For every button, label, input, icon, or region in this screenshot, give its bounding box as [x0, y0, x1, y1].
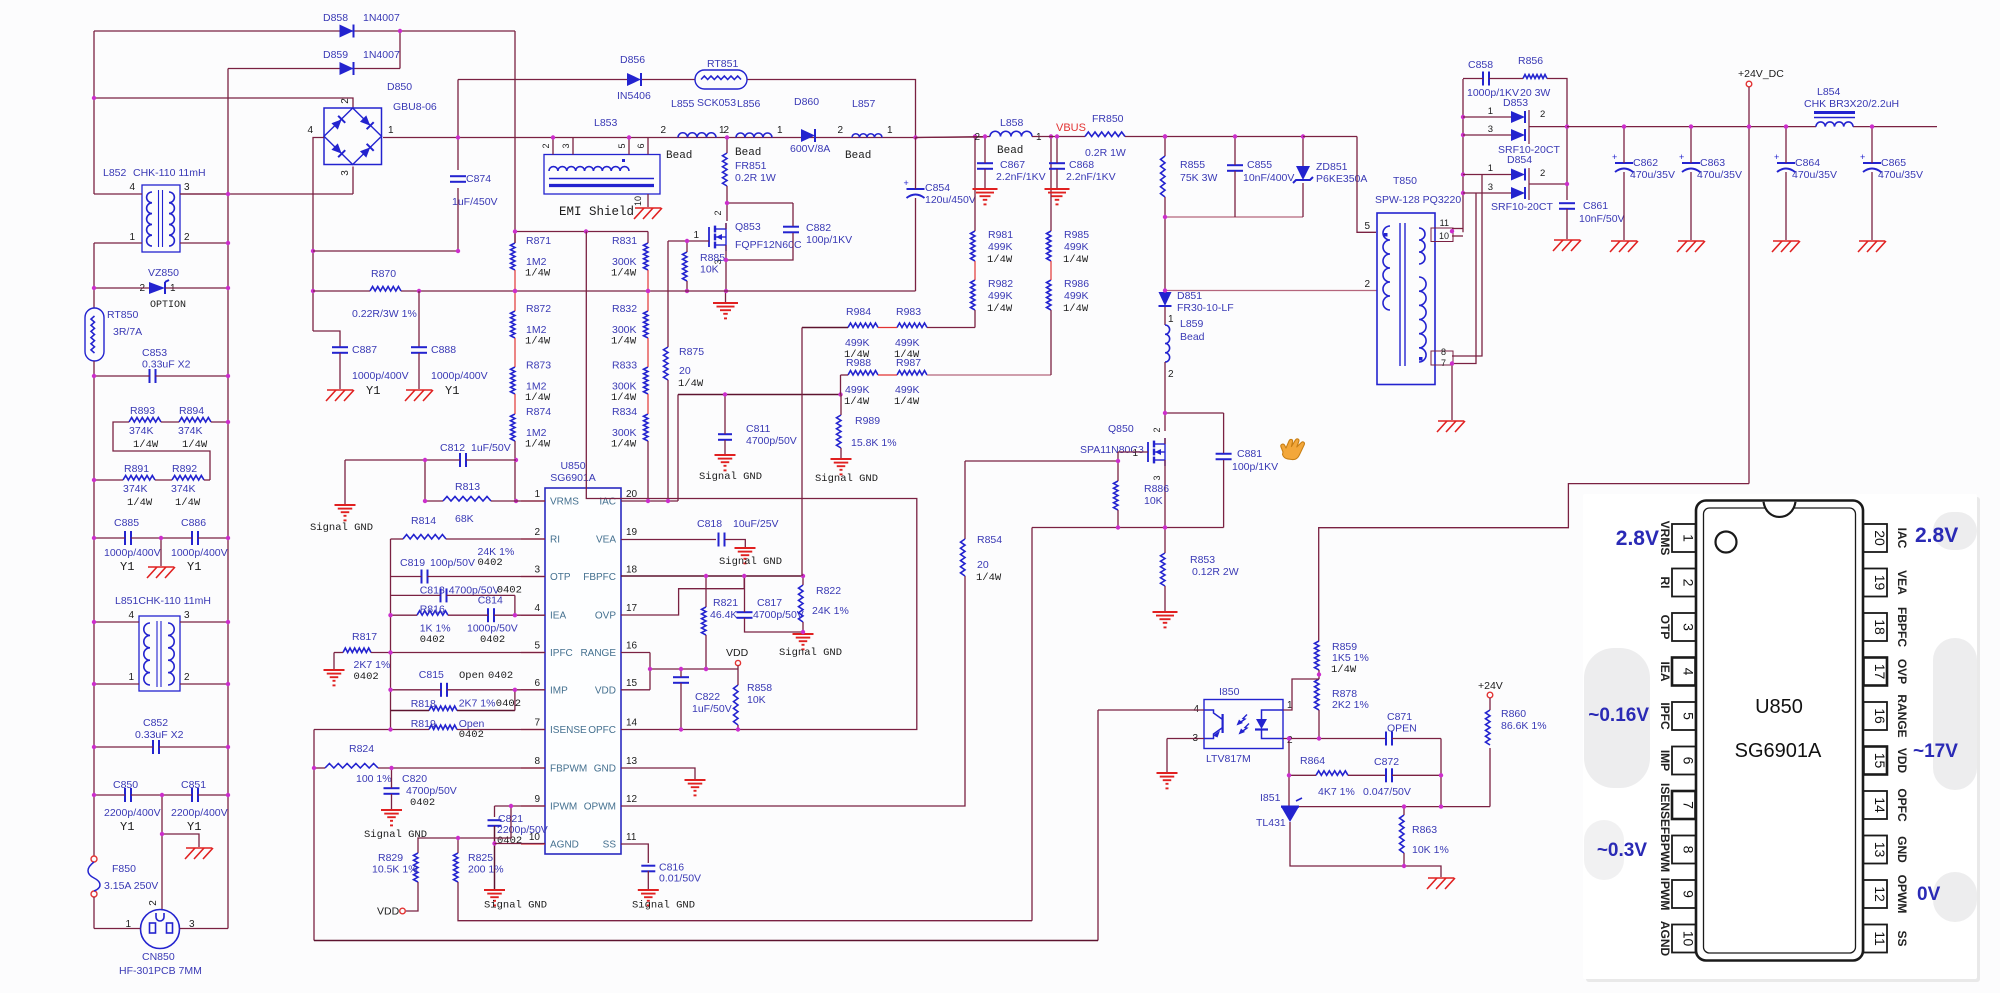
svg-text:1M2: 1M2: [526, 381, 547, 393]
junction dots: [388, 727, 392, 731]
wire: [313, 730, 315, 941]
diode D853: [1488, 97, 1561, 156]
wire: [974, 137, 976, 232]
resistor R834: [611, 406, 648, 451]
svg-text:R832: R832: [612, 303, 637, 315]
svg-text:C871: C871: [1387, 711, 1412, 723]
svg-text:Y1: Y1: [120, 820, 134, 834]
svg-text:RT851: RT851: [707, 58, 738, 70]
svg-text:Bead: Bead: [735, 147, 761, 159]
wire: [160, 538, 162, 566]
svg-text:R860: R860: [1501, 708, 1526, 720]
svg-text:Signal GND: Signal GND: [699, 471, 762, 483]
svg-text:+: +: [1860, 152, 1865, 162]
ground: [1858, 241, 1886, 252]
resistor R885: [683, 252, 726, 281]
svg-text:+: +: [904, 178, 909, 188]
wire: [180, 193, 353, 195]
svg-text:0402: 0402: [354, 671, 379, 683]
wire: [878, 327, 897, 329]
wire: [916, 136, 986, 139]
resistor R818: [411, 698, 521, 711]
svg-text:ISENSE: ISENSE: [550, 725, 587, 736]
wire: [1451, 364, 1453, 421]
resistor R864: [1300, 755, 1355, 798]
svg-text:1: 1: [1036, 132, 1042, 143]
junction dots: [1163, 134, 1305, 219]
svg-text:C820: C820: [402, 773, 427, 785]
wire: [1299, 806, 1490, 808]
wire: [915, 138, 917, 190]
svg-text:2: 2: [723, 125, 729, 136]
svg-text:300K: 300K: [612, 381, 637, 393]
svg-text:1: 1: [1488, 106, 1493, 117]
svg-text:R892: R892: [172, 463, 197, 475]
svg-text:1/4W: 1/4W: [844, 396, 870, 408]
svg-text:9: 9: [534, 794, 540, 805]
svg-text:3: 3: [1152, 475, 1162, 480]
wire: [428, 576, 546, 578]
svg-text:3R/7A: 3R/7A: [113, 326, 142, 338]
transformer L853 EMI shield: [541, 117, 660, 194]
svg-text:R886: R886: [1144, 483, 1169, 495]
svg-text:1/4W: 1/4W: [175, 497, 201, 509]
svg-text:14: 14: [626, 718, 638, 729]
svg-text:200 1%: 200 1%: [468, 864, 504, 876]
svg-text:R829: R829: [378, 852, 403, 864]
svg-text:R819: R819: [411, 718, 436, 730]
resistor R982: [971, 278, 1014, 315]
svg-text:499K: 499K: [1064, 241, 1089, 253]
svg-text:Bead: Bead: [1180, 331, 1205, 343]
ground Signal GND: [484, 890, 547, 912]
svg-text:10K: 10K: [700, 264, 719, 276]
inductor L854: [1804, 86, 1899, 127]
svg-text:C864: C864: [1795, 157, 1820, 169]
wire: [667, 241, 669, 347]
svg-text:10.5K 1%: 10.5K 1%: [372, 864, 418, 876]
wire: [621, 575, 803, 577]
wire: [1165, 216, 1303, 218]
resistor R987: [894, 357, 927, 408]
svg-text:600V/8A: 600V/8A: [790, 143, 830, 155]
svg-text:499K: 499K: [988, 290, 1013, 302]
wire: [677, 395, 679, 502]
svg-text:15: 15: [626, 678, 638, 689]
svg-text:R893: R893: [130, 405, 155, 417]
wire: [94, 746, 153, 748]
wire: [915, 198, 917, 291]
svg-text:R984: R984: [846, 306, 871, 318]
svg-text:R885: R885: [700, 252, 725, 264]
junction dots: [648, 667, 740, 732]
svg-text:11: 11: [1872, 931, 1888, 946]
resistor R859: [1315, 641, 1369, 676]
wire: [399, 31, 401, 69]
connector CN850: [119, 900, 202, 977]
svg-text:4700p/50V: 4700p/50V: [746, 435, 797, 447]
wire: [93, 243, 95, 308]
panel background: [1583, 494, 1980, 982]
wire: [916, 137, 991, 138]
thermistor RT850: [85, 308, 142, 361]
svg-text:C885: C885: [114, 517, 139, 529]
svg-text:R982: R982: [988, 278, 1013, 290]
svg-text:R833: R833: [612, 360, 637, 372]
zener VZ850: [139, 267, 186, 311]
wire: [965, 460, 1118, 462]
svg-text:R814: R814: [411, 515, 436, 527]
wire: [1463, 174, 1511, 176]
wire: [204, 479, 210, 481]
svg-text:7: 7: [534, 718, 540, 729]
optocoupler I850: [1192, 686, 1293, 765]
svg-text:374K: 374K: [123, 483, 148, 495]
svg-text:R853: R853: [1190, 554, 1215, 566]
wire: [1164, 460, 1166, 528]
svg-text:14: 14: [1872, 797, 1888, 813]
svg-text:1/4W: 1/4W: [611, 268, 637, 280]
ground Signal GND: [719, 548, 782, 568]
svg-text:FQPF12N60C: FQPF12N60C: [735, 239, 802, 251]
svg-text:4: 4: [534, 603, 540, 614]
svg-text:1000p/400V: 1000p/400V: [104, 547, 161, 559]
capacitor C865: [1860, 152, 1923, 181]
svg-text:1/4W: 1/4W: [894, 396, 920, 408]
svg-text:1/4W: 1/4W: [611, 336, 637, 348]
svg-text:L859: L859: [1180, 318, 1204, 330]
capacitor C874: [450, 173, 498, 208]
svg-text:1/4W: 1/4W: [525, 268, 551, 280]
svg-text:0402: 0402: [497, 835, 522, 847]
svg-text:4: 4: [307, 125, 313, 136]
wire: [94, 242, 142, 244]
wire: [1357, 137, 1376, 233]
wire: [131, 537, 192, 539]
wire: [495, 805, 546, 807]
junction dots: [1450, 115, 1465, 366]
wire: [180, 621, 228, 623]
svg-text:VDD: VDD: [1895, 748, 1909, 774]
resistor R893: [129, 405, 161, 451]
svg-text:4: 4: [128, 610, 134, 621]
svg-text:2: 2: [713, 210, 723, 215]
svg-text:374K: 374K: [178, 425, 203, 437]
svg-text:1/4W: 1/4W: [525, 336, 551, 348]
svg-text:SCK053: SCK053: [697, 97, 736, 109]
svg-text:0.12R 2W: 0.12R 2W: [1192, 566, 1239, 578]
svg-text:GND: GND: [1895, 836, 1909, 863]
wire: [1164, 586, 1166, 611]
svg-text:1: 1: [1488, 163, 1493, 174]
wire: [649, 653, 651, 690]
svg-text:120u/450V: 120u/450V: [925, 194, 976, 206]
svg-text:5: 5: [534, 641, 540, 652]
wire: [514, 690, 516, 711]
wire: [94, 683, 139, 685]
resistor R892: [171, 463, 204, 509]
junction dots: [725, 135, 918, 139]
wire: [1318, 710, 1320, 739]
svg-text:R989: R989: [855, 415, 880, 427]
capacitor C815: [419, 669, 513, 697]
zener ZD851: [1293, 161, 1367, 185]
svg-text:1000p/400V: 1000p/400V: [352, 370, 409, 382]
svg-text:R981: R981: [988, 229, 1013, 241]
capacitor C814: [467, 595, 518, 647]
wire: [466, 459, 516, 461]
svg-text:10: 10: [1681, 931, 1697, 947]
svg-text:GND: GND: [594, 764, 616, 775]
wire: [161, 421, 179, 423]
wire: [457, 710, 515, 712]
wire: [747, 80, 916, 138]
wire: [94, 193, 142, 195]
svg-text:FR850: FR850: [1092, 113, 1124, 125]
svg-text:5: 5: [1681, 712, 1697, 720]
wire: [647, 441, 649, 501]
svg-text:C852: C852: [143, 717, 168, 729]
svg-text:13: 13: [1872, 842, 1888, 858]
bridge rectifier D850: [307, 81, 436, 176]
wire: [1289, 774, 1316, 776]
wire: [1234, 171, 1236, 217]
ground Signal GND: [364, 810, 427, 841]
wire: [1463, 134, 1511, 136]
svg-text:1uF/450V: 1uF/450V: [452, 196, 498, 208]
ground: [1157, 773, 1178, 788]
wire: [686, 241, 688, 252]
wire: [586, 232, 917, 730]
capacitor C855: [1227, 159, 1294, 184]
svg-text:L853: L853: [594, 117, 618, 129]
wire: [705, 635, 707, 669]
svg-text:R817: R817: [352, 631, 377, 643]
wire: [621, 576, 744, 615]
svg-text:6: 6: [534, 678, 540, 689]
resistor R989: [837, 415, 897, 449]
svg-text:+24V: +24V: [1478, 680, 1503, 692]
wire: [345, 459, 460, 461]
wire: [1302, 137, 1304, 167]
resistor R985: [1047, 229, 1090, 266]
svg-text:F850: F850: [112, 863, 136, 875]
svg-text:OTP: OTP: [1658, 615, 1672, 640]
svg-text:I851: I851: [1260, 792, 1281, 804]
resistor R981: [971, 229, 1014, 266]
wire: [1303, 136, 1357, 138]
svg-text:C863: C863: [1700, 157, 1725, 169]
junction dots: [492, 841, 496, 845]
ground: [973, 189, 998, 204]
wire: [156, 375, 229, 377]
wire: [725, 223, 727, 229]
svg-text:1/4W: 1/4W: [976, 572, 1002, 584]
resistor FR850: [1085, 113, 1126, 159]
svg-text:0V: 0V: [1917, 884, 1941, 905]
wire: [1319, 484, 1749, 641]
node +24V_DC: [1738, 68, 1784, 87]
svg-text:470u/35V: 470u/35V: [1878, 169, 1923, 181]
resistor R821: [702, 597, 739, 635]
svg-text:R855: R855: [1180, 159, 1205, 171]
svg-text:3.15A 250V: 3.15A 250V: [104, 880, 158, 892]
junction dots: [388, 650, 392, 654]
junction dots: [312, 766, 394, 770]
svg-text:499K: 499K: [895, 337, 920, 349]
wire: [514, 242, 516, 244]
wire: [314, 940, 1098, 942]
wire: [726, 138, 728, 154]
wire: [927, 374, 1051, 376]
wire: [162, 834, 199, 847]
svg-text:2: 2: [148, 900, 159, 906]
svg-text:C850: C850: [113, 779, 138, 791]
wire: [401, 290, 916, 292]
cursor hand: [1281, 439, 1305, 460]
wire: [1853, 126, 1937, 128]
svg-text:499K: 499K: [988, 241, 1013, 253]
wire: [113, 422, 210, 480]
svg-text:1: 1: [693, 230, 699, 241]
wire: [801, 328, 803, 577]
wire: [521, 767, 545, 769]
svg-text:100p/50V: 100p/50V: [430, 557, 475, 569]
svg-text:1/4W: 1/4W: [1331, 664, 1357, 676]
junction dots: [551, 135, 631, 139]
svg-text:2.8V: 2.8V: [1616, 527, 1659, 550]
wire: [514, 270, 516, 311]
resistor R832: [611, 303, 648, 348]
wire: [448, 614, 488, 616]
capacitor C817: [737, 597, 804, 621]
junction dots: [92, 192, 230, 378]
wire: [94, 537, 125, 539]
svg-text:CN850: CN850: [142, 951, 175, 963]
wire: [161, 795, 163, 910]
wire: [313, 138, 324, 332]
wire: [1623, 127, 1625, 163]
svg-text:OTP: OTP: [550, 572, 571, 583]
svg-text:100p/1KV: 100p/1KV: [1232, 461, 1278, 473]
svg-text:0402: 0402: [410, 797, 435, 809]
svg-text:46.4K: 46.4K: [710, 609, 737, 621]
ferrite bead L859: [1165, 314, 1205, 380]
wire: [1032, 136, 1085, 138]
wire: [1165, 136, 1303, 138]
svg-text:1: 1: [128, 672, 134, 683]
svg-text:C811: C811: [746, 423, 770, 435]
capacitor C853: [142, 347, 191, 383]
capacitor C858: [1467, 59, 1550, 99]
svg-text:R834: R834: [612, 406, 637, 418]
svg-text:VEA: VEA: [1895, 570, 1909, 595]
wire: [378, 767, 545, 769]
svg-text:SPW-128 PQ3220: SPW-128 PQ3220: [1375, 194, 1461, 206]
wire: [1452, 235, 1463, 237]
resistor R814: [403, 515, 514, 569]
wire: [974, 261, 976, 280]
resistor R873: [511, 360, 552, 405]
svg-text:1/4W: 1/4W: [611, 439, 637, 451]
svg-text:HF-301PCB 7MM: HF-301PCB 7MM: [119, 965, 202, 977]
wire: [680, 669, 682, 677]
svg-text:12: 12: [1872, 886, 1888, 902]
wire: [1748, 87, 1750, 484]
svg-text:C812: C812: [440, 442, 465, 454]
wire: [314, 729, 429, 731]
capacitor C864: [1774, 152, 1837, 181]
resistor R858: [734, 682, 773, 725]
wire: [314, 767, 325, 769]
svg-text:1uF/50V: 1uF/50V: [692, 703, 732, 715]
svg-text:1000p/50V: 1000p/50V: [467, 623, 518, 635]
wire: [521, 538, 545, 540]
svg-text:Y1: Y1: [366, 384, 380, 398]
wire: [1234, 137, 1236, 166]
svg-text:3: 3: [1488, 182, 1493, 193]
svg-text:IEA: IEA: [550, 611, 566, 622]
wire: [198, 537, 228, 539]
svg-text:RANGE: RANGE: [580, 648, 616, 659]
svg-text:D860: D860: [794, 96, 819, 108]
svg-text:RI: RI: [550, 535, 560, 546]
svg-text:C855: C855: [1247, 159, 1272, 171]
svg-text:P6KE350A: P6KE350A: [1316, 173, 1367, 185]
wire: [514, 338, 516, 367]
svg-text:17: 17: [626, 603, 638, 614]
wire: [621, 576, 965, 806]
capacitor C854: [904, 178, 976, 206]
wire: [841, 374, 849, 376]
wire: [621, 768, 695, 779]
svg-text:L854: L854: [1817, 86, 1841, 98]
svg-text:IPFC: IPFC: [1658, 702, 1672, 730]
svg-text:VBUS: VBUS: [1056, 122, 1086, 134]
resistor R983: [894, 306, 927, 361]
resistor R984: [844, 306, 878, 361]
svg-text:FBPFC: FBPFC: [583, 572, 616, 583]
svg-text:LTV817M: LTV817M: [1206, 753, 1251, 765]
svg-text:1/4W: 1/4W: [127, 497, 153, 509]
junction dots: [973, 134, 1053, 138]
svg-text:C888: C888: [431, 344, 456, 356]
svg-text:R875: R875: [679, 346, 704, 358]
ground: [1045, 189, 1070, 204]
svg-text:1/4W: 1/4W: [1063, 303, 1089, 315]
svg-text:R985: R985: [1064, 229, 1089, 241]
ground: [685, 780, 706, 795]
junction dots: [1402, 804, 1443, 868]
svg-text:IPWM: IPWM: [550, 802, 577, 813]
svg-text:2.8V: 2.8V: [1915, 524, 1958, 547]
svg-text:Q853: Q853: [735, 221, 761, 233]
wire: [745, 618, 804, 632]
svg-text:C886: C886: [181, 517, 206, 529]
wire: [1288, 739, 1290, 807]
junction dots: [646, 499, 670, 503]
svg-text:1M2: 1M2: [526, 256, 547, 268]
ground: [1553, 240, 1581, 251]
svg-text:RT850: RT850: [107, 309, 138, 321]
junction dots: [92, 29, 402, 293]
svg-text:C872: C872: [1374, 756, 1399, 768]
wire: [155, 479, 172, 481]
svg-text:R986: R986: [1064, 278, 1089, 290]
wire: [725, 540, 745, 548]
label EMI Shield: [559, 205, 634, 219]
svg-text:2: 2: [541, 143, 551, 148]
